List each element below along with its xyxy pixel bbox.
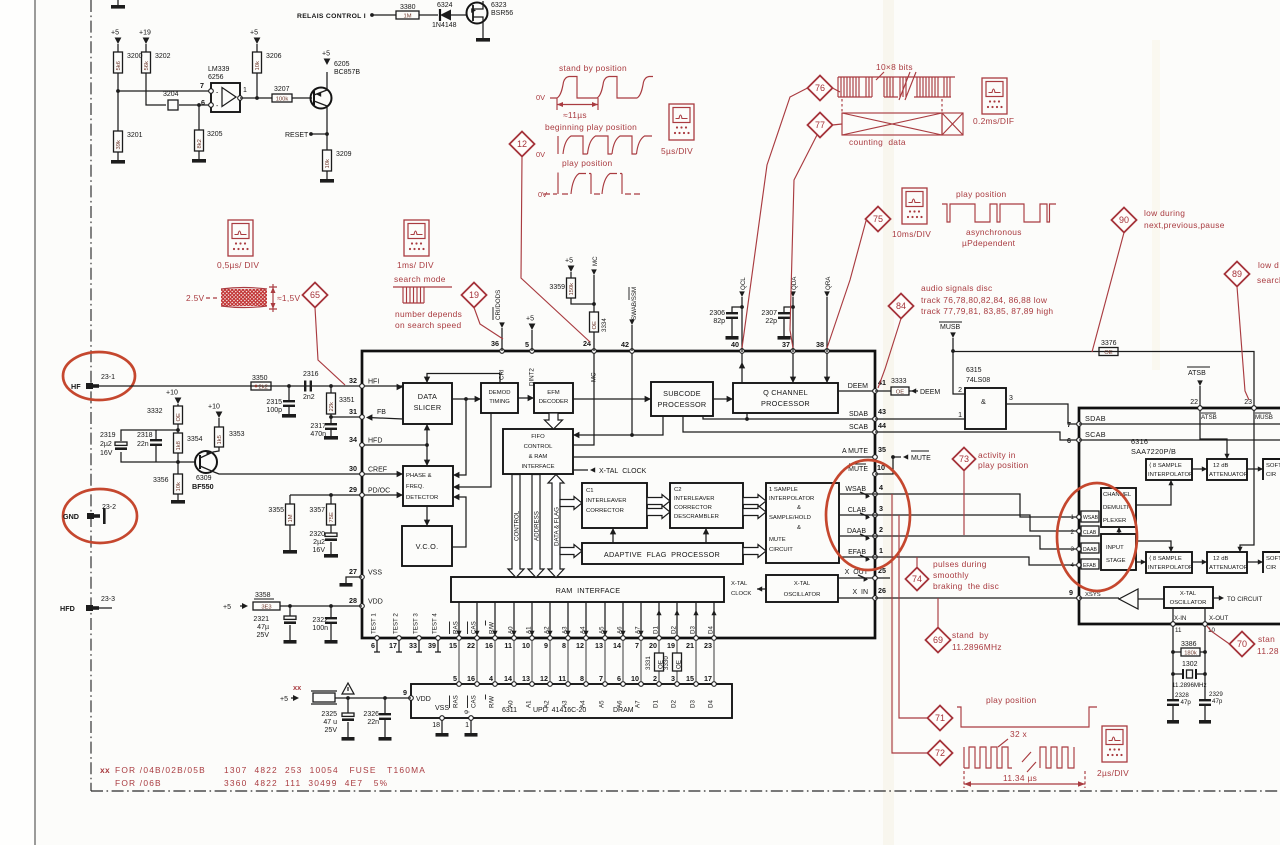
- +5 supply 3359: [568, 266, 575, 273]
- svg-text:SUBCODE: SUBCODE: [663, 389, 701, 398]
- svg-text:RAM INTERFACE: RAM INTERFACE: [556, 586, 621, 595]
- +19 supply for R3202: [143, 38, 150, 45]
- svg-text:1307 4822 253 10054 FUSE: 1307 4822 253 10054 FUSE T160MA: [224, 765, 426, 775]
- svg-text:VSS: VSS: [368, 570, 382, 577]
- leader 89: [1237, 287, 1249, 401]
- DRAM pin 17 D4: [712, 682, 717, 687]
- svg-text:3204: 3204: [163, 91, 179, 98]
- wire X IN to XSYS: [875, 597, 1079, 599]
- wire pin 27 VSS ground: [346, 577, 362, 583]
- pin 28: [360, 604, 365, 609]
- resistor 3207: [272, 94, 292, 102]
- svg-text:VDD: VDD: [368, 599, 383, 606]
- wire RAM to pin 16: [494, 602, 496, 636]
- pin 44 SCAB: [873, 430, 878, 435]
- svg-text:2321: 2321: [253, 616, 269, 623]
- svg-text:0V: 0V: [536, 93, 545, 102]
- svg-text:100n: 100n: [312, 625, 328, 632]
- svg-text:8k2: 8k2: [197, 139, 203, 148]
- wire X-TAL OSC to pin 25: [838, 577, 890, 579]
- svg-text:DAAB: DAAB: [1083, 547, 1097, 553]
- wire RAM to pin 19: [676, 602, 678, 636]
- svg-text:3E3: 3E3: [261, 605, 271, 611]
- svg-text:12 dB: 12 dB: [1213, 556, 1228, 562]
- svg-text:V.C.O.: V.C.O.: [416, 542, 439, 551]
- leader 76 to bits: [833, 88, 841, 92]
- +5 supply for R3206: [254, 38, 261, 45]
- svg-text:1ms/ DIV: 1ms/ DIV: [397, 260, 434, 270]
- svg-text:DEEM: DEEM: [848, 383, 868, 390]
- pin 31: [360, 415, 365, 420]
- svg-text:13: 13: [595, 641, 603, 650]
- svg-text:180k: 180k: [1184, 650, 1197, 656]
- pin 25 X OUT: [873, 576, 878, 581]
- wire 3202 to comparator minus input: [146, 73, 166, 105]
- svg-text:84: 84: [896, 301, 906, 311]
- svg-text:3201: 3201: [127, 132, 143, 139]
- svg-text:12: 12: [517, 139, 527, 149]
- pin 26 X IN: [873, 596, 878, 601]
- wire SWAB pin42 down: [631, 352, 633, 435]
- svg-text:+5: +5: [322, 51, 330, 58]
- svg-text:1M: 1M: [403, 13, 411, 19]
- leader 73 to DAAB: [963, 471, 965, 536]
- pin 10 X-OUT: [1203, 622, 1208, 627]
- pin 40: [740, 349, 745, 354]
- leader 19 to CRI: [474, 308, 503, 340]
- red ellipse right IC inputs: [1057, 483, 1137, 591]
- svg-text:16V: 16V: [100, 450, 113, 457]
- wire MC pin24 to FIFO: [573, 352, 594, 445]
- svg-text:DETECTOR: DETECTOR: [406, 495, 438, 501]
- wires 1SAMPLE outputs to pins: [839, 493, 875, 495]
- svg-text:VDD: VDD: [416, 696, 431, 703]
- capacitor 2316 2n2 series: [304, 381, 306, 392]
- svg-text:10k: 10k: [325, 159, 331, 168]
- svg-text:1k5: 1k5: [217, 435, 223, 444]
- svg-text:CIRCUIT: CIRCUIT: [769, 547, 793, 553]
- svg-text:play position: play position: [562, 158, 612, 168]
- wire 3359 to MC node: [571, 298, 594, 304]
- svg-text:TEST 3: TEST 3: [413, 613, 420, 634]
- net arrow CRI: [499, 322, 505, 328]
- svg-text:5µs/DIV: 5µs/DIV: [661, 146, 693, 156]
- red line CLAB to 71: [899, 515, 928, 718]
- svg-text:2325: 2325: [321, 711, 337, 718]
- svg-text:11.34 µs: 11.34 µs: [1003, 773, 1037, 783]
- svg-text:on search speed: on search speed: [395, 320, 461, 330]
- svg-text:CONTROL: CONTROL: [514, 510, 521, 541]
- diamond callout 65: [303, 283, 328, 308]
- node A MUTE: [891, 455, 895, 459]
- wire MUSB to attenuator bottom: [1240, 410, 1254, 551]
- svg-text:4: 4: [1071, 562, 1075, 569]
- node relais: [370, 13, 374, 17]
- label X-TAL CLOCK at FIFO: [573, 469, 588, 471]
- svg-text:6323: 6323: [491, 2, 507, 9]
- ground C2315: [282, 414, 296, 418]
- svg-text:ADAPTIVE FLAG PROCESSOR: ADAPTIVE FLAG PROCESSOR: [604, 550, 720, 559]
- svg-text:25V: 25V: [325, 727, 338, 734]
- svg-text:3331: 3331: [645, 656, 652, 670]
- svg-text:CORRECTOR: CORRECTOR: [586, 508, 624, 514]
- svg-text:X-TAL CLOCK: X-TAL CLOCK: [599, 468, 647, 475]
- svg-text:31: 31: [349, 407, 357, 416]
- wire RAM to pin 21: [695, 602, 697, 636]
- svg-text:C1: C1: [586, 488, 594, 494]
- oscilloscope icon 0.2ms/DIF: [982, 78, 1007, 114]
- leader 74 to EFAB: [916, 557, 918, 568]
- svg-text:A2: A2: [544, 700, 551, 708]
- svg-text:56k: 56k: [144, 61, 150, 70]
- svg-text:A MUTE: A MUTE: [842, 448, 868, 455]
- svg-text:14: 14: [504, 674, 512, 683]
- capacitor 2328 47p: [1167, 699, 1179, 701]
- wire to DRAM A7: [640, 640, 642, 682]
- svg-text:2328: 2328: [1175, 692, 1189, 699]
- DRAM pin 12 A2: [548, 682, 553, 687]
- svg-text:audio signals disc: audio signals disc: [921, 283, 993, 293]
- svg-text:stan: stan: [1258, 634, 1275, 644]
- pin 23 MUSB: [1252, 406, 1257, 411]
- oscilloscope icon 1ms/DIV: [404, 220, 429, 256]
- leader 84 to DEEM: [878, 319, 901, 389]
- svg-text:1: 1: [879, 546, 883, 555]
- svg-text:INTERLEAVER: INTERLEAVER: [674, 496, 714, 502]
- svg-text:11.2896MHz: 11.2896MHz: [952, 642, 1002, 652]
- svg-text:UPD 41416C-20: UPD 41416C-20: [533, 707, 586, 714]
- wire QCL pin40 to Q channel: [741, 352, 743, 383]
- svg-text:MUSB: MUSB: [1255, 414, 1273, 421]
- svg-text:1: 1: [1071, 514, 1075, 521]
- svg-text:65: 65: [310, 290, 320, 300]
- svg-text:77: 77: [815, 120, 825, 130]
- svg-text:22k: 22k: [329, 402, 335, 411]
- svg-text:+5: +5: [250, 30, 258, 37]
- stub Q channel to SDAB: [746, 413, 748, 419]
- svg-text:34: 34: [349, 435, 357, 444]
- diamond callout 72: [928, 741, 953, 766]
- wire ATSB to attenuator: [1200, 410, 1227, 458]
- node MUSB: [951, 349, 955, 353]
- pin 1 DRAM: [469, 716, 474, 721]
- DRAM pin 4 R/W: [493, 682, 498, 687]
- svg-text:6316: 6316: [1131, 437, 1148, 446]
- pin 27: [360, 575, 365, 580]
- svg-text:73: 73: [959, 454, 969, 464]
- capacitor 2329 47p: [1199, 699, 1211, 701]
- wire to DRAM A5: [604, 640, 606, 682]
- wire HF to pin 32: [98, 385, 362, 387]
- svg-text:track 77,79,81, 83,85, 87,89 h: track 77,79,81, 83,85, 87,89 high: [921, 306, 1053, 316]
- wire oscillator to pin 10: [1204, 608, 1206, 624]
- pin 2 CLAB right IC: [1077, 529, 1082, 534]
- svg-text:INTERFACE: INTERFACE: [521, 464, 554, 470]
- wire to R3380: [372, 14, 396, 16]
- bus CONTROL FIFO to RAM: [508, 475, 524, 578]
- svg-text:TEST 4: TEST 4: [432, 613, 439, 634]
- svg-text:CLAB: CLAB: [1083, 530, 1097, 536]
- svg-text:1M: 1M: [288, 514, 294, 522]
- svg-text:6: 6: [617, 674, 621, 683]
- svg-text:10: 10: [631, 674, 639, 683]
- diamond callout 12: [510, 132, 535, 157]
- svg-text:11: 11: [558, 674, 566, 683]
- svg-text:6: 6: [371, 641, 375, 650]
- wire attenuator to soft top: [1247, 468, 1263, 470]
- wire RAM to pin 20: [658, 602, 660, 636]
- svg-text:LM339: LM339: [208, 66, 230, 73]
- svg-text:A6: A6: [617, 700, 624, 708]
- pin 37: [791, 349, 796, 354]
- svg-text:90: 90: [1119, 215, 1129, 225]
- wire interpolator to attenuator top: [1192, 468, 1207, 470]
- svg-text:3: 3: [1071, 546, 1075, 553]
- svg-text:HF: HF: [71, 382, 81, 391]
- svg-text:0.2ms/DIF: 0.2ms/DIF: [973, 116, 1014, 126]
- svg-text:OSCILLATOR: OSCILLATOR: [1170, 600, 1207, 606]
- svg-text:SCAB: SCAB: [849, 424, 868, 431]
- DRAM pin 5 RAS: [457, 682, 462, 687]
- svg-text:braking the disc: braking the disc: [933, 581, 999, 591]
- wire ADAPTIVE to C2: [705, 535, 707, 543]
- resistor 3330 OE: [673, 653, 682, 671]
- wire to DRAM A1: [531, 640, 533, 682]
- block SUBCODE PROCESSOR: [651, 382, 713, 416]
- pin 42: [630, 349, 635, 354]
- wire EFM to SUBCODE: [573, 398, 651, 400]
- svg-text:low d: low d: [1258, 260, 1279, 270]
- leader 12 to MC: [521, 157, 590, 343]
- svg-text:7: 7: [1067, 420, 1071, 429]
- svg-text:12: 12: [576, 641, 584, 650]
- svg-text:3333: 3333: [891, 378, 907, 385]
- svg-text:φ: φ: [463, 710, 470, 714]
- svg-text:27: 27: [349, 567, 357, 576]
- oscilloscope icon 5us/DIV: [669, 104, 694, 140]
- svg-text:stand by position: stand by position: [559, 63, 627, 73]
- pin 8 A3: [566, 636, 571, 641]
- svg-text:A7: A7: [635, 700, 642, 708]
- block Q CHANNEL PROCESSOR: [733, 383, 838, 413]
- svg-text:10k: 10k: [255, 61, 261, 70]
- red ellipse around GND: [63, 489, 137, 543]
- block channel demultiplexer: [1101, 488, 1136, 527]
- block soft circuit top: [1263, 459, 1280, 480]
- break marks 32x: [1022, 752, 1036, 772]
- svg-text:RAS: RAS: [453, 695, 460, 708]
- svg-text:ATSB: ATSB: [1201, 414, 1217, 421]
- svg-text:PROCESSOR: PROCESSOR: [761, 399, 810, 408]
- svg-text:8: 8: [580, 674, 584, 683]
- diamond callout 70: [1230, 632, 1255, 657]
- +10 supply 3353: [216, 412, 223, 419]
- svg-text:7: 7: [599, 674, 603, 683]
- block DATA SLICER: [403, 383, 452, 424]
- bus arrow EFM to FIFO: [545, 413, 563, 429]
- leader 76 to QCL: [742, 88, 808, 348]
- svg-text:ATSB: ATSB: [1188, 370, 1206, 377]
- svg-text:X-TAL: X-TAL: [1180, 591, 1197, 597]
- svg-text:28: 28: [349, 596, 357, 605]
- svg-text:3354: 3354: [187, 436, 203, 443]
- crystal network wires: [1172, 626, 1174, 699]
- wire DATA SLICER PHASE double arrow: [426, 424, 428, 466]
- svg-text:2µ2: 2µ2: [100, 441, 112, 448]
- waveform play position: [544, 173, 640, 195]
- ground R3356: [177, 494, 179, 500]
- svg-text:3206: 3206: [266, 53, 282, 60]
- DRAM pin 2 D1: [657, 682, 662, 687]
- wire SCAB from subcode: [683, 416, 875, 432]
- svg-text:15: 15: [686, 674, 694, 683]
- diamond callout 77: [808, 113, 833, 138]
- wire R3380 to diode: [419, 14, 438, 16]
- leader 77 to QDA: [790, 135, 817, 348]
- svg-text:WSAB: WSAB: [845, 486, 866, 493]
- page left edge line: [34, 0, 36, 845]
- svg-text:FREQ.: FREQ.: [406, 484, 424, 490]
- pin 24 MC: [592, 349, 597, 354]
- svg-text:PD/OC: PD/OC: [368, 488, 390, 495]
- svg-text:13: 13: [522, 674, 530, 683]
- svg-text:SOFT: SOFT: [1266, 463, 1280, 469]
- block 8 sample interpolator top: [1146, 459, 1192, 480]
- wire MUTE pin10: [875, 457, 893, 474]
- node 3332-3354: [177, 424, 179, 433]
- ground R3209: [326, 171, 328, 179]
- svg-text:11: 11: [1175, 627, 1182, 634]
- svg-text:≈11µs: ≈11µs: [563, 110, 587, 120]
- DRAM pin 7 A5: [603, 682, 608, 687]
- pin 39 TEST: [436, 636, 441, 641]
- pin 22 ATSB: [1198, 406, 1203, 411]
- svg-text:HFD: HFD: [368, 438, 382, 445]
- wire node A to comparator plus input: [118, 90, 211, 92]
- pin 36 CRI: [500, 349, 505, 354]
- DRAM pin 6 A6: [621, 682, 626, 687]
- svg-text:76: 76: [815, 83, 825, 93]
- node 3351: [329, 384, 333, 388]
- svg-text:HFI: HFI: [368, 379, 379, 386]
- svg-text:23: 23: [704, 641, 712, 650]
- wire A MUTE from FIFO to pin 35: [573, 456, 875, 458]
- pin 4 WSAB: [873, 492, 878, 497]
- svg-text:xx: xx: [100, 765, 110, 775]
- svg-text:6309: 6309: [196, 475, 212, 482]
- svg-text:10ms/DIV: 10ms/DIV: [892, 229, 931, 239]
- wire interpolator to attenuator bottom: [1192, 561, 1207, 563]
- diamond callout 90: [1112, 208, 1137, 233]
- wire 3200 to node: [117, 73, 119, 91]
- node MC 3359: [592, 302, 596, 306]
- svg-text:OE: OE: [592, 321, 598, 330]
- DRAM pin 16 CAS: [475, 682, 480, 687]
- svg-text:CLOCK: CLOCK: [731, 591, 751, 597]
- block 8 sample interpolator bottom: [1146, 552, 1192, 573]
- pin 22 CAS: [475, 636, 480, 641]
- svg-text:23-1: 23-1: [101, 374, 115, 381]
- wire to DRAM A3: [567, 640, 569, 682]
- svg-text:5k6: 5k6: [116, 61, 122, 70]
- wire SCAB internal: [1079, 439, 1280, 441]
- svg-text:20: 20: [649, 641, 657, 650]
- svg-text:STAGE: STAGE: [1106, 558, 1126, 564]
- diamond callout 76: [808, 76, 833, 101]
- svg-text:A1: A1: [526, 700, 533, 708]
- wire RAM to pin 9: [549, 602, 551, 636]
- svg-text:play position: play position: [956, 189, 1006, 199]
- diamond callout 89: [1225, 262, 1250, 287]
- svg-text:X-TAL: X-TAL: [794, 581, 811, 587]
- node base: [177, 453, 179, 474]
- svg-text:6256: 6256: [208, 74, 224, 81]
- node 2321: [288, 604, 292, 608]
- pin 4 EFAB right IC: [1077, 563, 1082, 568]
- svg-text:47 u: 47 u: [323, 719, 337, 726]
- svg-text:CIR: CIR: [1266, 472, 1276, 478]
- svg-text:150k: 150k: [569, 283, 575, 296]
- IC U6310 SAA7210 main decoder outline: [362, 351, 875, 638]
- resistor 3200: [117, 44, 119, 52]
- fuse 2325: [313, 693, 335, 702]
- svg-text:2319: 2319: [100, 432, 116, 439]
- capacitor 2318 22n: [155, 430, 157, 439]
- svg-text:1: 1: [243, 87, 247, 94]
- svg-text:71: 71: [935, 713, 945, 723]
- pin 19 D2: [675, 636, 680, 641]
- wire input stage to interpolator bottom: [1136, 541, 1171, 551]
- DRAM pin 14 A0: [512, 682, 517, 687]
- resistor 3353: [218, 418, 220, 427]
- bus ADDRESS FIFO to RAM: [528, 475, 544, 578]
- pin 9 VDD DRAM: [409, 696, 414, 701]
- ground C2320: [330, 542, 332, 554]
- wire to DRAM D4: [713, 640, 715, 682]
- wire Q6205 collector: [326, 106, 328, 150]
- svg-text:INTERLEAVER: INTERLEAVER: [586, 498, 626, 504]
- wire to DRAM D3: [695, 640, 697, 682]
- leader 90 to MUSB line: [1092, 233, 1124, 353]
- DRAM pin 10 A7: [639, 682, 644, 687]
- svg-text:D2: D2: [671, 700, 678, 708]
- block 12dB attenuator top: [1207, 459, 1247, 480]
- node RESET: [325, 132, 329, 136]
- svg-text:9: 9: [1069, 588, 1073, 597]
- svg-text:2µs/DIV: 2µs/DIV: [1097, 768, 1129, 778]
- svg-text:3358: 3358: [255, 592, 271, 599]
- svg-text:1N4148: 1N4148: [432, 22, 457, 29]
- leader 65 to HFI: [315, 308, 345, 386]
- oscilloscope icon 2us/DIV: [1102, 726, 1127, 762]
- waveform data bits: [838, 77, 950, 97]
- capacitor 2317 470n: [330, 417, 332, 423]
- svg-text:3332: 3332: [147, 408, 163, 415]
- svg-text:EFAB: EFAB: [1083, 563, 1097, 569]
- svg-text:CHANNEL: CHANNEL: [1103, 492, 1132, 498]
- svg-text:69: 69: [933, 635, 943, 645]
- block EFM DECODER: [534, 383, 573, 413]
- wire collector to pin 30: [214, 472, 362, 474]
- svg-text:2: 2: [958, 387, 962, 394]
- svg-text:DATA: DATA: [418, 392, 437, 401]
- svg-text:A4: A4: [580, 700, 587, 708]
- search mode waveform: [393, 286, 452, 288]
- svg-text:22n: 22n: [367, 719, 379, 726]
- resistor 3350: [251, 382, 271, 390]
- svg-text:3376: 3376: [1101, 340, 1117, 347]
- waveform 32x burst: [964, 747, 1012, 768]
